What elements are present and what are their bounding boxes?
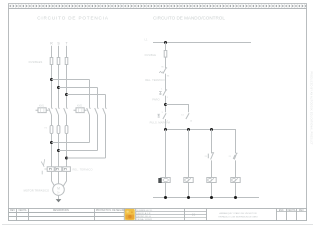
node E1 (164, 196, 167, 199)
contactor KM2 main contact pole 3 (103, 107, 107, 115)
fuse F3 (65, 58, 68, 65)
wire branch v3 vertical (105, 95, 107, 159)
node D1 (164, 128, 167, 131)
lamp H1 (207, 178, 216, 183)
svg-text:3~: 3~ (57, 190, 60, 194)
svg-text:KM2: KM2 (77, 105, 83, 108)
node B1 (merge L1) (50, 141, 53, 144)
svg-text:NOMBRE: A.C.R.: NOMBRE: A.C.R. (137, 209, 153, 212)
svg-text:FECHA: FECHA (288, 209, 296, 212)
node A3 (L3 tap) (65, 93, 68, 96)
svg-text:PARO: PARO (152, 98, 160, 102)
fuse F4 (50, 126, 53, 134)
contactor KM2 main contact pole 2 (95, 107, 99, 115)
svg-text:FECHA: 12/05/11: FECHA: 12/05/11 (137, 218, 153, 221)
thermal relay NC contact 95-96 (159, 67, 170, 78)
svg-text:FUSIBLES: FUSIBLES (29, 60, 43, 64)
wire motor to earth (58, 195, 60, 199)
svg-text:M: M (57, 186, 60, 190)
node C1 (164, 41, 167, 44)
thermal overload relay heater block (47, 167, 70, 172)
contactor KM1 operator box (36, 105, 49, 113)
node E4 (234, 196, 237, 199)
contactor KM2 operator box (74, 105, 87, 113)
node D3 (210, 128, 213, 131)
wire branch lamp H1 drop (211, 130, 213, 198)
svg-text:MOTOR TRIFASICO: MOTOR TRIFASICO (24, 188, 49, 192)
title block header texts (10, 209, 304, 212)
signature labels (137, 209, 153, 221)
svg-text:T: T (65, 42, 67, 46)
svg-text:ARRANQUE Y PARO DE UN MOTOR: ARRANQUE Y PARO DE UN MOTOR (219, 212, 257, 215)
drawing title text (218, 212, 258, 218)
svg-text:FECHA: FECHA (19, 209, 27, 212)
wire branch v2 vertical (97, 88, 99, 151)
node B3 (merge L3) (65, 157, 68, 160)
wire tap L3 to branch v3 (67, 94, 106, 96)
wire tap L2 to branch v2 (59, 87, 98, 89)
wire phase L1 vertical (52, 46, 55, 186)
wire phase L2 vertical (58, 46, 60, 184)
node C2 (parallel tap) (164, 103, 167, 106)
wire branch KM2 coil drop (188, 130, 190, 198)
title block outline (9, 209, 307, 221)
coil KM1 (158, 178, 170, 184)
signature rows mid section (136, 212, 207, 218)
lamp H2 (231, 178, 240, 183)
node E2 (187, 196, 190, 199)
fuse F1 (50, 58, 53, 65)
wire branch v1 vertical (89, 80, 91, 143)
svg-text:REL. TERMICO: REL. TERMICO (145, 78, 165, 82)
node D2 (187, 128, 190, 131)
contactor KM1 main contact pole 1 (49, 107, 53, 115)
title block column lines (17, 209, 297, 221)
svg-text:REVISO: M.L.H.: REVISO: M.L.H. (137, 216, 152, 218)
wire merge v3 to L3 (67, 157, 106, 159)
fuse F2 (57, 58, 60, 65)
wire branch lamp H2 drop (235, 160, 237, 197)
wire mid bus (166, 130, 236, 154)
svg-text:FUSIBLE: FUSIBLE (145, 53, 157, 57)
svg-text:DIBUJO: A.C.R.: DIBUJO: A.C.R. (137, 212, 152, 215)
svg-text:REV.: REV. (299, 210, 305, 212)
wire bottom neutral bus (153, 197, 259, 199)
logo emblem (125, 209, 135, 220)
svg-text:KM1: KM1 (39, 105, 45, 108)
wire merge v1 to L1 (52, 142, 90, 144)
wire tap L1 to branch v1 (52, 79, 90, 81)
svg-text:PULS. MARCHA: PULS. MARCHA (150, 121, 171, 125)
fuse F6 (65, 126, 68, 134)
paper bottom edge (2, 224, 313, 226)
top ruler strip with numbered cells (9, 4, 307, 9)
interlock contact KM1 (NC) (229, 153, 238, 159)
coil KM2 (184, 178, 193, 183)
earth arrow symbol (56, 199, 62, 202)
svg-text:DESCRIPCION: DESCRIPCION (53, 210, 69, 212)
interlock contact KM2 (NC) (205, 153, 214, 160)
wire phase L3 vertical (63, 46, 66, 186)
wire parallel branch top (166, 105, 189, 113)
motor M1 (53, 184, 65, 196)
fuse F8 (control) (164, 51, 167, 58)
wire branch KM1 coil drop (165, 130, 167, 198)
svg-text:CIRCUITO DE POTENCIA: CIRCUITO DE POTENCIA (37, 16, 109, 21)
node A2 (L2 tap) (57, 86, 60, 89)
node E3 (210, 196, 213, 199)
wire control main drop (165, 43, 167, 198)
wire control top rail (153, 42, 251, 44)
svg-text:REL. TERMICO: REL. TERMICO (73, 168, 93, 172)
svg-text:REV: REV (10, 210, 15, 212)
node B2 (merge L2) (57, 149, 60, 152)
contactor KM2 main contact pole 1 (87, 107, 91, 115)
title block row lines left section (9, 213, 125, 217)
contactor KM1 main contact pole 3 (64, 107, 68, 115)
pushbutton S2 start (NO) (157, 112, 168, 123)
phase labels R S T (50, 42, 67, 46)
auxiliary contact KM1 (seal-in, NO) (181, 113, 193, 122)
svg-text:TRIFASICO CON INVERSION DE GIR: TRIFASICO CON INVERSION DE GIRO (218, 215, 258, 218)
svg-text:PROYECTO N. DE SEGURO: PROYECTO N. DE SEGURO (96, 210, 126, 212)
svg-text:PRODUCED BY AN AUTODESK EDUCAT: PRODUCED BY AN AUTODESK EDUCATIONAL PROD… (310, 71, 313, 145)
svg-text:CIRCUITO DE MANDO/CONTROL: CIRCUITO DE MANDO/CONTROL (153, 16, 225, 21)
fuse F5 (57, 126, 60, 134)
pushbutton S1 stop (NC) (159, 88, 169, 99)
header underline right section (277, 211, 307, 213)
node A1 (L1 tap) (50, 78, 53, 81)
svg-text:ESC.: ESC. (279, 210, 285, 212)
wire merge v2 to L2 (59, 150, 98, 152)
contactor KM1 main contact pole 2 (56, 107, 60, 115)
thermal overload relay trip lever (41, 159, 47, 174)
